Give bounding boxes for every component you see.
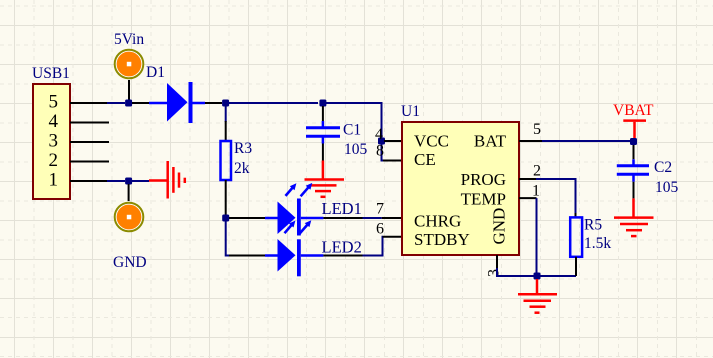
svg-text:STDBY: STDBY: [414, 230, 470, 249]
U1 BAT pin line: [519, 140, 542, 142]
resistor R3 body: [221, 141, 232, 180]
USB1 pin 5 line: [70, 102, 107, 104]
power port VBAT bar symbol: [623, 121, 646, 138]
capacitor C1 top pin: [322, 106, 324, 122]
capacitor C1 symbol: [306, 121, 340, 144]
U1 CHRG pin line: [382, 217, 402, 219]
wire USB pin5 to diode: [107, 102, 125, 104]
ground symbol below C1: [305, 161, 345, 197]
U1 PROG pin line: [519, 178, 536, 180]
wire diode junction to C1 junction: [229, 102, 318, 104]
LED2 cathode pin: [323, 255, 362, 257]
U1 GND pin line: [496, 255, 498, 268]
junction node at diode output: [222, 100, 229, 107]
GND power port at USB pin1: [107, 178, 149, 185]
LED LED2 symbol: [265, 220, 323, 276]
ground symbol bottom center: [518, 279, 557, 313]
svg-text:5: 5: [533, 121, 541, 138]
diode D1 anode pin: [132, 102, 149, 104]
junction node at VCC: [378, 138, 385, 145]
wire C1 junction to corner and down to CE: [326, 103, 384, 161]
svg-text:R5: R5: [584, 217, 602, 234]
ground symbol right-facing at USB pin1: [149, 161, 185, 199]
USB1 pin 2 line: [70, 161, 109, 163]
svg-text:4: 4: [49, 111, 59, 132]
ground symbol below C2: [614, 198, 654, 236]
junction node at VBAT: [630, 138, 637, 145]
resistor R3 top pin wire: [225, 106, 227, 122]
svg-text:GND: GND: [113, 254, 147, 271]
U1 TEMP pin line: [519, 197, 537, 199]
wire BAT to VBAT junction: [542, 140, 630, 142]
USB1 pin 4 line: [70, 122, 109, 124]
svg-text:VBAT: VBAT: [613, 102, 654, 119]
svg-text:C1: C1: [343, 122, 361, 139]
svg-text:2: 2: [533, 163, 541, 180]
LED LED1 symbol: [265, 183, 323, 236]
diode D1 symbol: [149, 82, 205, 123]
diode D1 cathode pin: [205, 102, 222, 104]
svg-text:USB1: USB1: [32, 65, 70, 82]
capacitor C2 symbol: [617, 159, 649, 181]
svg-text:2k: 2k: [234, 160, 250, 177]
wire junction to ground: [132, 180, 149, 182]
svg-text:105: 105: [655, 179, 679, 196]
capacitor C2 top pin: [633, 145, 635, 159]
wire USB pin1 to junction: [107, 180, 125, 182]
svg-text:5: 5: [49, 92, 59, 113]
svg-text:5Vin: 5Vin: [114, 31, 144, 48]
wire U1 GND to bottom net: [497, 268, 576, 276]
testpoint GND pad: [115, 203, 144, 232]
junction node above C1: [319, 100, 326, 107]
LED1 cathode pin: [323, 217, 362, 219]
junction node below 5Vin: [125, 100, 132, 107]
resistor R5 bottom pin: [575, 257, 577, 276]
svg-text:CHRG: CHRG: [414, 212, 461, 231]
svg-text:CE: CE: [414, 150, 436, 169]
svg-text:4: 4: [375, 126, 383, 143]
wire R3 junction down to LED2 row: [226, 221, 230, 256]
testpoint 5Vin pad: [115, 50, 144, 79]
wire pin1 junction down to GND testpoint: [128, 184, 130, 201]
svg-text:GND: GND: [490, 208, 509, 245]
junction node at R3 bottom: [222, 215, 229, 222]
svg-text:TEMP: TEMP: [461, 190, 506, 209]
svg-text:U1: U1: [401, 103, 420, 120]
U1 CE pin line: [383, 160, 402, 162]
svg-text:1.5k: 1.5k: [584, 235, 611, 252]
connector USB1 body: [33, 84, 70, 199]
svg-text:8: 8: [376, 143, 384, 160]
LED1 emission arrows: [286, 187, 294, 196]
wire PROG to R5: [536, 179, 576, 213]
wire 5Vin testpoint to node: [128, 80, 130, 103]
svg-text:7: 7: [376, 201, 384, 218]
wire LED1 to CHRG: [363, 217, 382, 219]
resistor R5 body: [570, 217, 582, 256]
capacitor C1 bottom pin: [322, 144, 324, 161]
svg-text:1: 1: [532, 183, 540, 200]
wire LED2 up to STDBY: [363, 237, 384, 256]
LED2 anode wire: [229, 255, 265, 257]
svg-text:VCC: VCC: [414, 132, 449, 151]
LED1 anode wire: [229, 217, 265, 219]
USB1 pin 3 line: [70, 141, 109, 143]
USB1 pin 1 line: [70, 180, 107, 182]
svg-text:3: 3: [49, 131, 59, 152]
wire TEMP down to ground junction: [536, 198, 538, 276]
svg-text:R3: R3: [234, 140, 252, 157]
IC U1 body: [402, 122, 519, 255]
resistor R3 bottom pin: [225, 180, 227, 215]
svg-text:LED1: LED1: [322, 199, 362, 218]
svg-text:PROG: PROG: [461, 170, 506, 189]
svg-text:BAT: BAT: [474, 132, 507, 151]
svg-text:2: 2: [49, 150, 59, 171]
LED2 emission arrows: [285, 225, 293, 234]
capacitor C2 bottom pin: [633, 182, 635, 199]
svg-text:LED2: LED2: [322, 238, 362, 257]
svg-text:6: 6: [376, 221, 384, 238]
svg-text:1: 1: [49, 170, 59, 191]
svg-text:D1: D1: [146, 64, 165, 81]
svg-text:105: 105: [344, 141, 368, 158]
U1 STDBY pin line: [383, 236, 402, 238]
U1 VCC pin line: [384, 140, 402, 142]
svg-text:C2: C2: [654, 159, 672, 176]
resistor R5 top pin: [575, 213, 577, 218]
junction node at pin1: [125, 178, 132, 185]
junction node at bottom ground: [534, 273, 541, 280]
